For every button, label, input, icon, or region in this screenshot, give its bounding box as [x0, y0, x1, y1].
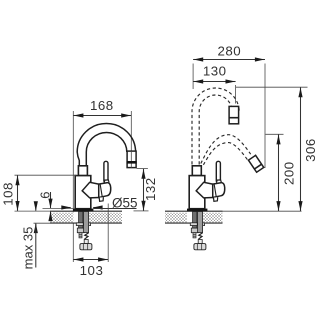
svg-text:280: 280: [217, 43, 241, 58]
stud thread tail: [193, 233, 196, 238]
lowered spout position inner arc (dashed): [203, 143, 247, 165]
countertop deck (hatched) right view: [165, 211, 302, 224]
svg-text:108: 108: [1, 182, 16, 206]
raised position aerator tip: [229, 106, 239, 123]
spout base connector (left view): [78, 166, 87, 176]
dimension 108: [15, 175, 77, 211]
dimension 103: [73, 204, 108, 263]
base plate (right view): [187, 209, 207, 212]
hose flex kink: [84, 233, 88, 240]
lever handle stick (left view): [104, 161, 108, 183]
countertop deck (hatched) left view: [50, 211, 122, 224]
lever base joint (right view): [217, 180, 222, 183]
base plate (left view): [73, 209, 93, 212]
hose hex nut: [80, 244, 92, 250]
dimension 306: [236, 87, 308, 211]
svg-text:6: 6: [37, 192, 52, 199]
svg-text:306: 306: [303, 138, 318, 162]
svg-text:Ø55: Ø55: [112, 195, 138, 210]
under-deck mounting hardware left view: [76, 212, 92, 250]
lowered spout position outer arc (dashed): [201, 135, 251, 164]
supply hose tube: [84, 212, 89, 233]
faucet body column (left view): [75, 176, 91, 209]
hose flex kink: [198, 233, 202, 240]
cartridge lower tail: [99, 197, 103, 201]
washer plate: [190, 223, 204, 226]
under-deck mounting hardware right view: [190, 212, 206, 250]
hose end segment: [84, 240, 88, 244]
dimension 6: [43, 192, 74, 221]
svg-text:103: 103: [80, 263, 104, 278]
spout holder wedge (right view): [196, 182, 213, 198]
spout arch inner: [86, 133, 127, 167]
cartridge housing (right view): [213, 183, 225, 198]
dimension max 35: [34, 202, 51, 268]
deck top line extending to right dimensions: [223, 210, 302, 212]
svg-text:max 35: max 35: [20, 227, 35, 270]
threaded stud: [79, 212, 83, 229]
hose end segment: [198, 240, 202, 244]
threaded stud: [193, 212, 197, 229]
extension line right of spout / aerator centerline (x=131.3): [130, 111, 132, 168]
svg-text:132: 132: [143, 177, 158, 201]
raised spout position inner arc (dashed): [199, 95, 232, 165]
cartridge housing (left view): [99, 183, 111, 198]
stud thread tail: [79, 233, 82, 238]
dimension 130: [193, 82, 236, 104]
spout base connector (right view): [192, 166, 201, 176]
dimension 280: [193, 60, 265, 169]
raised spout position outer arc (dashed): [192, 88, 239, 165]
svg-text:200: 200: [282, 161, 297, 185]
cartridge lower tail (right view): [214, 197, 218, 201]
supply hose tube: [198, 212, 203, 233]
dimension 200: [266, 134, 284, 211]
lever base joint: [104, 180, 109, 183]
faucet body column (right view): [189, 176, 205, 209]
dimension Ø55 with leader: [64, 208, 137, 209]
lever handle stick (right view): [216, 161, 220, 183]
svg-text:168: 168: [90, 98, 114, 113]
spout holder wedge (left view): [82, 182, 99, 198]
mounting nut: [77, 228, 84, 233]
mounting nut: [191, 228, 198, 233]
dimension 132: [134, 168, 149, 211]
svg-text:130: 130: [203, 64, 227, 79]
spout arch outer (left view): [77, 124, 135, 166]
extension line left (x=73.3, shared by dims 168 and 103): [72, 111, 74, 262]
washer plate: [76, 223, 90, 226]
aerator tip (left view): [127, 151, 137, 168]
hose hex nut: [194, 244, 206, 250]
dimension 168: [73, 115, 131, 117]
lowered position aerator tip (rotated): [248, 155, 263, 172]
